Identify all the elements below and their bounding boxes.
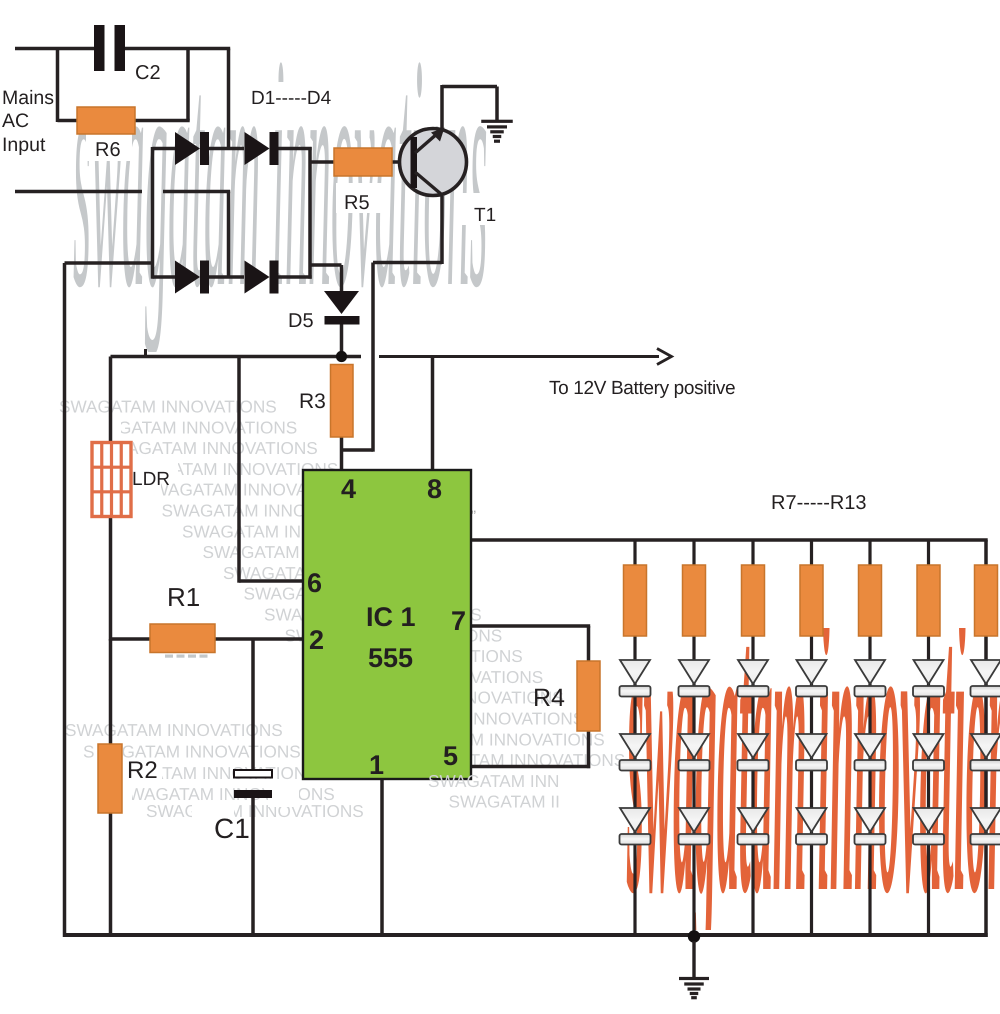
LED D3c bbox=[738, 808, 769, 845]
resistor R5 bbox=[334, 148, 392, 176]
svg-text:SWAGATAM INNOVATIONS: SWAGATAM INNOVATIONS bbox=[59, 397, 277, 417]
op-amp/timer IC1 555 body bbox=[303, 470, 471, 779]
wire AC2 down to bridge D3/D4 bbox=[227, 192, 231, 279]
wire T1 collector to ground bbox=[440, 85, 444, 130]
wire rail to IC pin 8 bbox=[431, 357, 435, 472]
wire T1 emitter down bbox=[440, 196, 444, 264]
wire R4 to IC pin 5 bbox=[587, 730, 591, 768]
diode D2 bbox=[245, 132, 270, 165]
wire LED column 7 vertical bbox=[984, 540, 988, 937]
LED D3b bbox=[738, 734, 769, 771]
resistor R10 bbox=[800, 565, 823, 636]
wire mains live drop to R6 bbox=[56, 49, 60, 123]
svg-text:6: 6 bbox=[307, 568, 322, 598]
svg-text:7: 7 bbox=[451, 606, 466, 636]
LED D2b bbox=[679, 734, 710, 771]
gray dashes under R1 bbox=[165, 655, 173, 658]
svg-text:AC: AC bbox=[2, 110, 29, 132]
node junction (ground rail) bbox=[688, 930, 700, 942]
svg-text:R5: R5 bbox=[344, 192, 370, 214]
svg-text:R4: R4 bbox=[533, 684, 565, 712]
wire battery rail right + arrow bbox=[379, 355, 659, 358]
wire LED column 6 vertical bbox=[927, 540, 930, 937]
LED D7a bbox=[971, 660, 1000, 697]
svg-text:5: 5 bbox=[443, 741, 458, 771]
wire C1 branch bbox=[251, 639, 255, 771]
wire bridge left vertical bbox=[151, 147, 155, 279]
wire stub tick on rail bbox=[144, 349, 147, 357]
LED D2a bbox=[679, 660, 710, 697]
resistor R4 bbox=[577, 661, 600, 731]
LED D6a bbox=[913, 660, 944, 697]
wire bridge top row bbox=[153, 147, 176, 151]
wire battery rail left bbox=[111, 355, 362, 359]
wire R1 row / pin2 bbox=[111, 637, 152, 641]
wire LED column 2 vertical bbox=[692, 540, 695, 937]
svg-text:Mains: Mains bbox=[2, 87, 54, 109]
resistor R8 bbox=[683, 565, 706, 636]
wire AC1 down to bridge D1/D2 bbox=[227, 49, 231, 151]
LED D5b bbox=[855, 734, 886, 771]
LED D5c bbox=[855, 808, 886, 845]
white patches over watermark bbox=[66, 414, 121, 438]
wire R5 to bridge bbox=[311, 160, 335, 164]
wire LED column 4 vertical bbox=[810, 540, 813, 937]
wire bottom ground rail bbox=[65, 933, 988, 937]
wire bridge DC+ to D5 bbox=[310, 263, 342, 267]
svg-text:555: 555 bbox=[368, 643, 413, 673]
wire bridge DC- to left rail bbox=[65, 261, 153, 265]
svg-text:To 12V Battery positive: To 12V Battery positive bbox=[549, 378, 735, 399]
svg-text:R7-----R13: R7-----R13 bbox=[771, 492, 867, 514]
svg-text:R6: R6 bbox=[95, 139, 121, 161]
svg-text:IC 1: IC 1 bbox=[366, 602, 416, 632]
svg-text:Input: Input bbox=[2, 134, 46, 156]
watermark swagatam innovations (gray, top) bbox=[73, 0, 488, 358]
LED D5a bbox=[855, 660, 886, 697]
svg-text:C1: C1 bbox=[214, 813, 250, 844]
svg-text:1: 1 bbox=[369, 750, 384, 780]
ground (top, collector) bbox=[481, 120, 513, 143]
capacitor C2 bbox=[94, 25, 105, 71]
svg-text:SWAGATAM INNOVATIONS: SWAGATAM INNOVATIONS bbox=[65, 720, 283, 740]
svg-text:C2: C2 bbox=[135, 62, 161, 84]
wire top rail left bbox=[15, 47, 95, 51]
node junction (D5/R3/battery rail) bbox=[336, 351, 347, 362]
ground (bottom) bbox=[679, 941, 709, 999]
resistor R1 bbox=[150, 624, 215, 653]
LED D4b bbox=[796, 734, 827, 771]
wire LED column 5 vertical bbox=[868, 540, 871, 937]
resistor R12 bbox=[917, 565, 940, 636]
capacitor C1 bbox=[234, 770, 272, 778]
LED D4a bbox=[796, 660, 827, 697]
LED D6b bbox=[913, 734, 944, 771]
resistor R11 bbox=[859, 565, 882, 636]
wire rail to IC pin 6 bbox=[237, 357, 241, 583]
svg-text:SWAGATAM INNOVATIONS: SWAGATAM INNOVATIONS bbox=[146, 801, 364, 821]
diode D4 bbox=[245, 261, 270, 294]
watermark swagatam innovations (orange, bottom) bbox=[627, 506, 1000, 983]
svg-text:R1: R1 bbox=[167, 582, 200, 612]
resistor R6 bbox=[77, 107, 135, 134]
wire LED column 3 vertical bbox=[751, 540, 754, 937]
svg-text:SWAGATAM II: SWAGATAM II bbox=[449, 792, 560, 812]
wire bridge bottom row bbox=[153, 275, 176, 279]
resistor R3 bbox=[331, 365, 354, 438]
wire R5 to T1 base bbox=[392, 160, 411, 164]
svg-text:T1: T1 bbox=[474, 205, 496, 226]
svg-text:4: 4 bbox=[341, 474, 356, 504]
LED D1c bbox=[620, 808, 651, 845]
LED D7c bbox=[971, 808, 1000, 845]
wire IC pin 8/right to LED rail bbox=[470, 538, 988, 542]
diode D1 bbox=[175, 132, 200, 165]
LED D6c bbox=[913, 808, 944, 845]
wire R3 to IC pin 4 bbox=[340, 437, 344, 471]
LED D2c bbox=[679, 808, 710, 845]
resistor R13 bbox=[975, 565, 998, 636]
svg-text:8: 8 bbox=[427, 474, 442, 504]
svg-text:SWAGATAM INN: SWAGATAM INN bbox=[428, 771, 559, 791]
wire R6 right to top rail bbox=[135, 119, 190, 123]
resistor R9 bbox=[742, 565, 765, 636]
wire IC pin 1 to ground rail bbox=[380, 778, 384, 937]
LDR bbox=[92, 443, 131, 517]
svg-text:D5: D5 bbox=[288, 310, 314, 332]
wire top rail right of C2 bbox=[124, 47, 230, 51]
resistor R2 bbox=[98, 744, 122, 813]
LED D7b bbox=[971, 734, 1000, 771]
LED D1a bbox=[620, 660, 651, 697]
resistor R7 bbox=[624, 565, 647, 636]
wire R2 vertical bbox=[109, 639, 113, 745]
wire bridge right vertical bbox=[308, 147, 312, 279]
wire mains neutral bbox=[15, 190, 142, 194]
svg-text:LDR: LDR bbox=[132, 469, 170, 490]
wire IC pin 7 to R4 bbox=[470, 624, 590, 628]
wire D5 cathode to node bbox=[340, 324, 344, 352]
LED D4c bbox=[796, 808, 827, 845]
svg-text:R2: R2 bbox=[127, 757, 158, 784]
LED D3a bbox=[738, 660, 769, 697]
svg-text:2: 2 bbox=[309, 625, 324, 655]
svg-text:D1-----D4: D1-----D4 bbox=[251, 88, 332, 109]
diode D3 bbox=[175, 261, 200, 294]
wire LED column 1 vertical bbox=[633, 540, 636, 937]
svg-text:R3: R3 bbox=[299, 390, 326, 413]
diode D5 bbox=[324, 291, 359, 314]
transistor T1 bbox=[400, 128, 467, 196]
LED D1b bbox=[620, 734, 651, 771]
wire LDR branch vertical bbox=[109, 357, 113, 445]
